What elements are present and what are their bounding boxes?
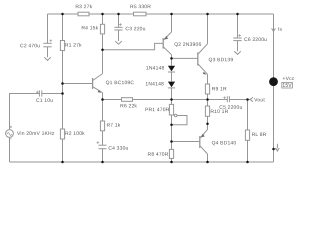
capacitor C5 xyxy=(223,96,229,102)
wire Q3 base xyxy=(172,57,198,59)
wire C4 to bottom rail xyxy=(102,149,104,162)
wire output node to C5 xyxy=(208,99,228,101)
wire Q2 collector to diode chain xyxy=(171,55,173,66)
node Q1 emitter xyxy=(101,98,104,101)
wire right rail xyxy=(273,14,275,162)
transistor Q2 xyxy=(163,32,171,55)
resistor R5 xyxy=(134,12,147,16)
node PR1 wiper xyxy=(170,123,173,126)
wire Q2 emitter to rail xyxy=(171,14,173,32)
wire R10 to Q4 emitter xyxy=(207,116,209,129)
transistor Q3 xyxy=(198,44,208,75)
node right rail ground xyxy=(272,148,275,151)
resistor R2 xyxy=(60,129,64,139)
svg-text:Q1 BC109C: Q1 BC109C xyxy=(106,80,135,86)
wire emitter output line xyxy=(103,99,122,101)
resistor R10 xyxy=(205,106,209,116)
capacitor C4 xyxy=(97,141,107,148)
node rail-Q2e xyxy=(170,13,173,16)
wire C1 input xyxy=(42,93,63,95)
svg-text:R9 1R: R9 1R xyxy=(212,86,227,92)
svg-text:PR1 470R: PR1 470R xyxy=(145,107,170,113)
resistor R1 xyxy=(60,41,64,51)
svg-text:1N4148: 1N4148 xyxy=(146,65,165,71)
wire C1 to Vin xyxy=(10,94,40,130)
svg-text:Q4 BD140: Q4 BD140 xyxy=(212,140,237,146)
diode D1 1N4148 xyxy=(168,66,175,72)
node Q1 base xyxy=(61,82,64,85)
node rail-Q3c xyxy=(206,13,209,16)
wire Q3 emitter to R9 xyxy=(207,74,209,84)
wire PR1 node to output node xyxy=(172,99,208,101)
resistor R7 xyxy=(100,121,104,131)
node Q1 collector xyxy=(101,48,104,51)
node rail-RL xyxy=(246,161,249,164)
label 15V boxed xyxy=(282,83,293,90)
svg-text:1N4148: 1N4148 xyxy=(145,81,164,87)
svg-text:C4 330u: C4 330u xyxy=(108,146,128,152)
wire Vout node to RL xyxy=(247,100,249,131)
resistor RL xyxy=(245,130,249,140)
svg-text:Q2 2N3906: Q2 2N3906 xyxy=(174,42,201,48)
wire R1 to base node xyxy=(62,51,64,130)
resistor R4 xyxy=(100,24,104,34)
wire RL to bottom rail xyxy=(247,140,249,162)
wire D1 to D2 xyxy=(171,72,173,82)
wire Q1 emitter down xyxy=(102,93,104,121)
svg-text:R8 470R: R8 470R xyxy=(148,152,169,158)
resistor R6 xyxy=(122,98,133,102)
wire R7 to C4 xyxy=(102,131,104,145)
node rail-C4 xyxy=(101,161,104,164)
capacitor C6 xyxy=(233,14,241,51)
svg-text:Vin 20mV 1KHz: Vin 20mV 1KHz xyxy=(17,131,55,137)
svg-text:Q3 BD139: Q3 BD139 xyxy=(209,57,234,63)
node rail-R8 xyxy=(170,161,173,164)
diode D2 1N4148 xyxy=(168,82,175,88)
ground right rail xyxy=(274,144,280,151)
current arrow Is xyxy=(272,28,276,31)
wire D2 to output line xyxy=(171,88,173,100)
svg-text:R5 330R: R5 330R xyxy=(130,4,151,10)
node rail-R1 xyxy=(61,13,64,16)
wire R9 to output node xyxy=(207,94,209,100)
svg-text:C3 220u: C3 220u xyxy=(125,26,145,32)
node rail-C3 xyxy=(117,13,120,16)
wire Vin to bottom rail xyxy=(9,137,11,162)
wire Q4 base xyxy=(172,141,200,143)
resistor R9 xyxy=(205,84,209,94)
ground under C6 xyxy=(234,51,241,54)
node diode top xyxy=(170,57,173,60)
node Vout xyxy=(246,98,249,101)
svg-text:C1 10u: C1 10u xyxy=(36,98,53,104)
svg-text:RL 8R: RL 8R xyxy=(252,132,267,138)
capacitor C3 xyxy=(114,14,122,41)
wire Q1 base xyxy=(63,83,93,85)
wire R2 to bottom rail xyxy=(62,139,64,162)
wire R4 to Q1 collector xyxy=(102,34,104,74)
svg-text:R1 27k: R1 27k xyxy=(65,43,82,49)
capacitor C2 xyxy=(43,14,52,57)
svg-text:Vout: Vout xyxy=(254,97,265,103)
wire bottom rail 0V xyxy=(10,161,274,163)
svg-text:R2 100k: R2 100k xyxy=(65,131,85,137)
svg-text:C2 470u: C2 470u xyxy=(20,43,40,49)
node rail-R2 xyxy=(61,161,64,164)
wire Q4 collector to bottom rail xyxy=(207,154,209,162)
svg-text:R10 1R: R10 1R xyxy=(210,109,228,115)
svg-text:R6 22k: R6 22k xyxy=(120,103,137,109)
ground under C3 xyxy=(115,41,122,44)
svg-text:R3 27k: R3 27k xyxy=(75,4,92,10)
terminal Vout xyxy=(250,97,253,101)
svg-text:R7 1k: R7 1k xyxy=(106,123,120,129)
svg-text:Is: Is xyxy=(278,27,283,33)
svg-text:+Vcc: +Vcc xyxy=(283,76,295,82)
wire Q1 collector to Q2 base xyxy=(103,43,164,49)
svg-text:C6 2200u: C6 2200u xyxy=(244,37,267,43)
node Q4 base xyxy=(170,140,173,143)
wire R4 branch xyxy=(102,14,104,24)
wire top rail +Vcc xyxy=(48,13,274,15)
potentiometer PR1 xyxy=(169,100,187,150)
node PR1 top xyxy=(170,98,173,101)
resistor R8 xyxy=(169,149,173,158)
wire R6 to PR1 node xyxy=(133,99,172,101)
wire output node to R10 xyxy=(207,100,209,107)
node C1 bias xyxy=(61,92,64,95)
svg-text:15V: 15V xyxy=(282,83,292,89)
resistor R3 xyxy=(78,12,89,16)
ground under C2 xyxy=(44,57,51,60)
source Vin xyxy=(6,126,14,139)
wire R8 to bottom rail xyxy=(171,158,173,162)
node rail-C6 xyxy=(236,13,239,16)
node rail-R4 xyxy=(101,13,104,16)
capacitor C1 xyxy=(36,90,42,96)
node output xyxy=(206,98,209,101)
node R10 bottom xyxy=(206,123,209,126)
node rail-Q4c xyxy=(206,161,209,164)
terminal +Vcc xyxy=(269,77,278,86)
wire bias chain x=62.5 xyxy=(62,14,64,41)
svg-text:R4 15k: R4 15k xyxy=(81,25,98,31)
transistor Q1 xyxy=(93,74,103,93)
transistor Q4 xyxy=(200,130,208,155)
wire C5 to Vout node xyxy=(229,99,250,101)
wire Q3 collector to rail xyxy=(207,14,209,44)
